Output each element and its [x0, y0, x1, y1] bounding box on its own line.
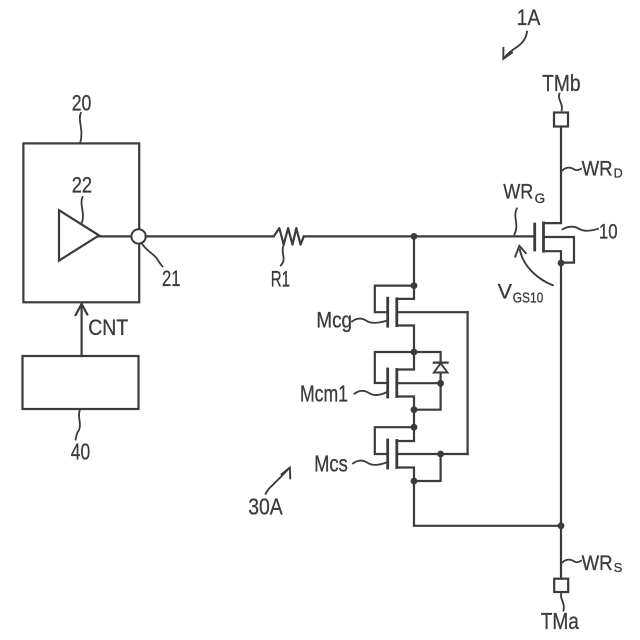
leader for label 22: [81, 197, 83, 224]
leader for label WRG: [514, 209, 516, 235]
box 20 (driver block): [23, 143, 139, 302]
svg-text:CNT: CNT: [88, 315, 128, 340]
leader for label Mcg: [352, 319, 386, 323]
wire transistor 10 source down to bottom rail and TMa: [560, 263, 562, 579]
junction dot Mcs drain/gate node: [411, 424, 418, 431]
transistor Mcm1 (gate loop, gate bar, channel bar, drain, source, body): [375, 352, 441, 410]
junction dot Mcm1 source node: [411, 406, 418, 413]
leader for label Mcs: [353, 461, 386, 465]
arrow for label 30A: [266, 468, 291, 494]
svg-text:21: 21: [162, 266, 181, 291]
wire Mcm1 source to Mcs drain node: [413, 410, 415, 428]
svg-text:1A: 1A: [517, 5, 541, 30]
wire Mcm1 drain node to diode cathode: [414, 352, 441, 363]
junction dot Mcm1 drain/gate node: [411, 349, 418, 356]
junction dot at node WRG / stack top: [411, 233, 418, 240]
leader for label 10: [563, 227, 599, 231]
junction dot Mcs body node: [437, 451, 444, 458]
svg-text:Mcm1: Mcm1: [300, 381, 348, 407]
svg-text:20: 20: [72, 90, 92, 115]
svg-text:WR: WR: [582, 158, 613, 181]
transistor Mcs (gate loop, gate bar, channel bar, drain, source, body): [375, 427, 468, 481]
svg-text:V: V: [498, 280, 513, 304]
wire CNT arrow (box 40 to box 20): [76, 304, 88, 356]
junction dot transistor 10 source/body node: [558, 260, 565, 267]
transistor 10 (gate bar, channel bar, drain, source, body): [535, 127, 574, 263]
resistor R1 (zigzag): [274, 228, 304, 245]
wire Mcs source to bottom rail: [414, 481, 561, 526]
svg-text:TMa: TMa: [541, 608, 579, 634]
diode (cathode bar and triangle): [434, 363, 448, 384]
junction dot diode anode / Mcm1 body node: [437, 380, 444, 387]
svg-text:10: 10: [599, 221, 618, 244]
leader for label R1: [281, 245, 284, 266]
leader for label TMb: [559, 94, 562, 111]
leader for label TMa: [561, 593, 564, 611]
wire Mcs body node down to Mcs source: [414, 454, 441, 481]
svg-text:40: 40: [71, 439, 90, 465]
svg-text:30A: 30A: [248, 494, 283, 520]
box 40 (control block): [23, 356, 139, 409]
svg-text:G: G: [535, 191, 546, 206]
junction dot Mcg drain node: [411, 282, 418, 289]
wire buffer output to node 21: [99, 235, 132, 237]
buffer 22 (triangle amplifier): [59, 210, 99, 260]
svg-text:R1: R1: [271, 266, 290, 291]
leader for label WRS: [563, 560, 582, 563]
arrow for label VGS10: [515, 246, 553, 285]
svg-text:22: 22: [72, 173, 92, 198]
leader for label WRD: [563, 168, 582, 171]
wire body bus vertical (Mcg body to Mcs body): [467, 312, 469, 454]
wire resistor R1 to gate of transistor 10: [304, 235, 535, 237]
svg-text:WR: WR: [503, 181, 533, 204]
svg-text:GS10: GS10: [513, 291, 543, 307]
node 21 (open circle output terminal): [131, 229, 145, 243]
junction dot Mcs source node: [411, 478, 418, 485]
leader for label 21: [142, 243, 163, 267]
leader for label 40: [76, 410, 80, 440]
svg-text:WR: WR: [582, 552, 613, 575]
terminal TMa (square pad): [554, 579, 568, 592]
wire junction down to Mcg drain: [413, 236, 415, 285]
svg-text:Mcs: Mcs: [314, 451, 348, 477]
svg-text:S: S: [614, 560, 623, 575]
wire node 21 to resistor R1: [146, 235, 274, 237]
transistor Mcg (gate loop, gate bar, channel bar, drain, source, body): [375, 286, 468, 352]
wire diode anode down to Mcm1 source: [414, 383, 441, 409]
svg-text:D: D: [614, 166, 623, 180]
svg-text:Mcg: Mcg: [316, 307, 352, 332]
leader for label 20: [80, 113, 82, 143]
arrow for label 1A: [503, 32, 527, 59]
leader for label Mcm1: [355, 391, 387, 395]
svg-text:TMb: TMb: [542, 70, 580, 96]
junction dot bottom rail node WRS: [558, 522, 565, 529]
terminal TMb (square pad): [554, 113, 568, 127]
